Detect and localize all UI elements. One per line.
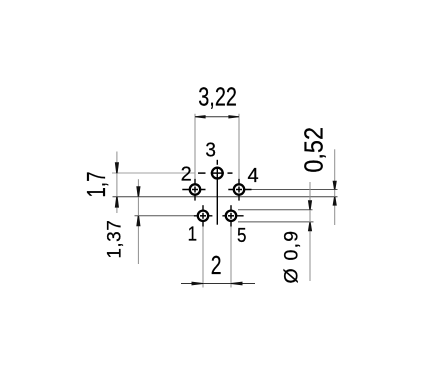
dimension line 0,52 vertical <box>334 149 336 225</box>
extension line pin4 vertical (3,22 right) <box>238 114 240 179</box>
svg-text:4: 4 <box>248 165 259 187</box>
extension line y=215.8 horizontal (1,37 bottom) <box>135 215 195 217</box>
extension line y=189.5 to 0,52 dim <box>252 189 338 191</box>
svg-text:Ø 0,9: Ø 0,9 <box>281 230 303 284</box>
svg-text:1,37: 1,37 <box>105 220 126 259</box>
pin 1 contact circle <box>198 211 208 221</box>
arrow 1,37 top (pointing down, tip y=196.7) <box>136 186 140 197</box>
svg-text:3,22: 3,22 <box>198 82 237 111</box>
svg-text:0,52: 0,52 <box>301 127 329 173</box>
pin 4 crosshair <box>228 189 251 191</box>
svg-text:1,7: 1,7 <box>82 172 111 198</box>
arrow 3,22 right <box>228 115 238 118</box>
arrow 1,37 bottom (pointing up, tip y=215.8) <box>136 216 140 227</box>
pin 1 center cross <box>200 215 206 217</box>
pin 4 contact circle <box>234 184 244 194</box>
svg-text:2: 2 <box>211 251 222 279</box>
pin 5 center cross <box>228 215 234 217</box>
reference centerline y=196.7 horizontal <box>113 196 338 198</box>
extension line pin2 vertical (3,22 left) <box>194 114 196 179</box>
pin 2 crosshair <box>182 189 205 191</box>
dimension line 1,7 vertical <box>116 152 118 214</box>
pin5 bottom tangent line to Ø0,9 dim <box>238 221 314 223</box>
dimension line 2 horizontal <box>181 283 255 285</box>
pin 3 contact circle <box>212 168 223 179</box>
arrow Ø0,9 top (pointing down, tip y=209.7) <box>308 200 312 210</box>
pin 3 centerline left dash <box>198 172 206 174</box>
pin 3 centerline vertical <box>216 167 218 225</box>
extension line y=173 horizontal (1,7 top) <box>112 172 195 174</box>
svg-text:3: 3 <box>205 139 216 162</box>
arrow 0,52 top (pointing down, tip y=189.6) <box>333 181 337 190</box>
pin 4 center cross <box>236 189 242 191</box>
pin 3 centerline right dash <box>228 172 233 174</box>
dimension line 1,37 vertical <box>137 179 139 264</box>
dimension line Ø0,9 vertical <box>309 182 311 281</box>
pin 2 center cross <box>192 189 198 191</box>
extension line pin5 vertical (dim 2 right) <box>230 227 232 288</box>
svg-text:5: 5 <box>237 224 246 247</box>
pin 1 crosshair <box>194 215 213 217</box>
pin 3 centerline vertical top dash <box>216 160 218 165</box>
pin 3 cross chord horizontal <box>211 172 224 174</box>
extension line pin1 vertical (dim 2 left) <box>202 227 204 288</box>
svg-text:1: 1 <box>188 222 197 245</box>
pin 5 crosshair <box>222 215 243 217</box>
arrow dim2 left (outside, pointing right) <box>192 282 204 286</box>
arrow dim2 right (outside, pointing left) <box>231 282 243 286</box>
arrow Ø0,9 bottom (pointing up, tip y=221.9) <box>308 222 312 231</box>
arrow 1,7 bottom (pointing up, tip y=196.7) <box>115 197 119 208</box>
pin 5 contact circle <box>226 211 236 221</box>
svg-text:2: 2 <box>181 164 192 186</box>
pin 2 contact circle <box>190 184 200 194</box>
dimension line 3,22 horizontal <box>195 116 239 118</box>
arrow 1,7 top (pointing down, tip y=173) <box>115 162 119 173</box>
arrow 0,52 bottom (pointing up, tip y=196.8) <box>333 197 337 206</box>
arrow 3,22 left <box>195 115 205 118</box>
pin5 top tangent line to Ø0,9 dim <box>238 209 313 211</box>
